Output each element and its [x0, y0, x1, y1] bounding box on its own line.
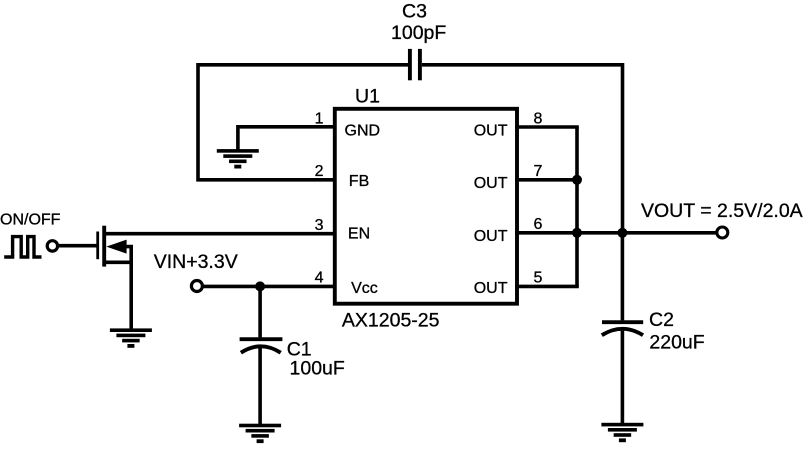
wire output bus vertical [575, 127, 579, 286]
wire VIN node down to C1 [258, 286, 262, 337]
svg-text:AX1205-25: AX1205-25 [342, 310, 440, 332]
svg-text:OUT: OUT [474, 122, 508, 139]
junction dot bus pin6 [572, 228, 582, 238]
wire pin 7 stub [515, 178, 579, 182]
svg-text:100pF: 100pF [391, 22, 446, 44]
svg-text:GND: GND [345, 122, 381, 139]
wire pin 1 GND stub [238, 127, 336, 150]
svg-text:ON/OFF: ON/OFF [0, 211, 61, 228]
transistor Q1 gate bar [96, 232, 99, 260]
wire top right: C3 right plate to corner down to VOUT node [422, 65, 623, 233]
wire C1 bottom to ground [258, 348, 262, 424]
svg-text:6: 6 [534, 216, 543, 233]
svg-text:4: 4 [315, 270, 324, 287]
svg-text:2: 2 [315, 163, 324, 180]
transistor Q1 source stub [104, 260, 131, 264]
ground C1 [239, 424, 281, 443]
svg-text:C2: C2 [649, 309, 674, 331]
svg-text:1: 1 [315, 110, 324, 127]
wire pin 3 EN to transistor drain [104, 232, 336, 236]
ground C2 [601, 423, 643, 442]
wire pin 4 Vcc to VIN terminal [204, 285, 337, 289]
terminal circle ON/OFF [47, 241, 57, 251]
svg-text:7: 7 [534, 163, 543, 180]
transistor Q1 gate wire from ON/OFF terminal [59, 244, 98, 248]
transistor Q1 body arrow [106, 240, 126, 254]
ground pin1 GND [217, 149, 259, 168]
svg-text:OUT: OUT [474, 228, 508, 245]
capacitor C2 [602, 322, 643, 335]
junction dot VOUT/C2 [617, 228, 627, 238]
svg-text:C3: C3 [402, 0, 427, 22]
transistor Q1 channel bar [102, 226, 106, 267]
ground transistor source [110, 328, 152, 347]
wire C2 top: VOUT node down to C2 [621, 233, 625, 321]
capacitor C3 plates [410, 49, 420, 80]
svg-text:VOUT = 2.5V/2.0A: VOUT = 2.5V/2.0A [641, 200, 803, 222]
svg-text:EN: EN [348, 225, 370, 242]
wire pin 8 stub [515, 125, 579, 129]
svg-text:220uF: 220uF [649, 332, 704, 354]
svg-text:OUT: OUT [474, 280, 508, 297]
junction dot VIN/C1 [255, 281, 265, 291]
svg-text:3: 3 [315, 217, 324, 234]
svg-text:Vcc: Vcc [351, 280, 378, 297]
transistor Q1 source/body wire down to ground [125, 247, 132, 329]
input pulse waveform symbol [4, 237, 41, 257]
svg-text:U1: U1 [355, 85, 380, 107]
terminal circle VOUT [717, 227, 728, 238]
svg-text:FB: FB [349, 173, 369, 190]
svg-text:5: 5 [534, 270, 543, 287]
wire C2 bottom to ground [621, 331, 625, 424]
svg-text:VIN+3.3V: VIN+3.3V [154, 251, 238, 273]
wire top loop left: C3 left plate to left vertical down to FB pin 2 [198, 65, 408, 180]
svg-text:100uF: 100uF [290, 358, 345, 380]
svg-text:OUT: OUT [474, 175, 508, 192]
IC U1 body [335, 109, 517, 304]
svg-text:8: 8 [534, 110, 543, 127]
junction dot bus pin7 [572, 175, 582, 185]
wire pin 6 to VOUT terminal [515, 231, 716, 235]
capacitor C1 [240, 339, 283, 353]
terminal circle VIN [191, 281, 202, 292]
wire pin 5 stub [515, 285, 579, 289]
